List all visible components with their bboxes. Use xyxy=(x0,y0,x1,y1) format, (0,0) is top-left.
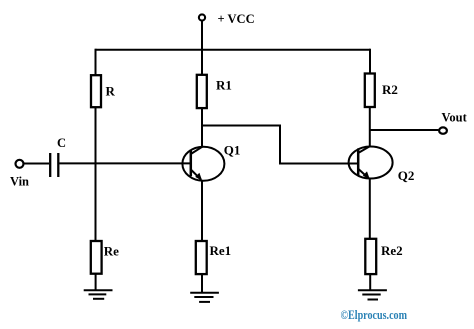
ground left xyxy=(84,290,113,299)
terminal Vout xyxy=(439,127,447,133)
ground right xyxy=(358,290,387,299)
wire middle ground stub xyxy=(201,274,203,292)
wire R1 bottom to Q1 collector xyxy=(201,108,203,147)
resistor Re xyxy=(91,241,102,274)
wire coupling Q1 collector to Q2 base xyxy=(202,126,358,164)
wire base Q1 xyxy=(59,162,190,164)
svg-text:Q1: Q1 xyxy=(224,143,241,158)
arrow Q1 emitter xyxy=(195,173,202,181)
wire Q1 emitter down xyxy=(201,181,203,242)
svg-text:R2: R2 xyxy=(382,82,398,97)
wire input xyxy=(24,163,49,165)
wire right ground stub xyxy=(369,274,371,290)
resistor R1 xyxy=(197,75,207,108)
wire Vout branch xyxy=(370,129,439,131)
svg-text:+ VCC: + VCC xyxy=(218,12,255,26)
terminal +VCC xyxy=(199,14,205,20)
resistor Re1 xyxy=(196,241,207,274)
wire R2 bottom to Q2 collector xyxy=(369,107,371,147)
svg-text:Re1: Re1 xyxy=(210,243,232,258)
wire left branch top xyxy=(95,49,97,76)
resistor Re2 xyxy=(365,239,376,274)
resistor R xyxy=(91,75,101,107)
wire top supply rail xyxy=(96,49,371,51)
ground middle xyxy=(190,293,219,302)
terminal Vin xyxy=(16,160,24,168)
svg-text:C: C xyxy=(57,136,66,150)
svg-text:Re2: Re2 xyxy=(381,243,403,258)
svg-text:Vin: Vin xyxy=(10,174,29,188)
wire right branch top xyxy=(369,49,371,75)
transistor Q1 xyxy=(182,147,224,181)
transistor Q2 xyxy=(349,146,393,178)
svg-text:Q2: Q2 xyxy=(398,168,415,183)
arrow Q2 emitter xyxy=(363,171,370,179)
wire VCC stub xyxy=(201,21,203,50)
wire Q2 emitter down xyxy=(369,178,371,239)
wire left branch middle xyxy=(95,107,97,241)
capacitor C xyxy=(50,153,58,177)
svg-text:Vout: Vout xyxy=(442,111,468,125)
svg-text:Re: Re xyxy=(104,244,119,259)
svg-text:R: R xyxy=(106,83,116,98)
resistor R2 xyxy=(365,74,375,108)
wire R1 top xyxy=(201,49,203,76)
wire left ground stub xyxy=(95,274,97,290)
svg-text:©Elprocus.com: ©Elprocus.com xyxy=(341,307,408,322)
svg-text:R1: R1 xyxy=(216,78,232,93)
